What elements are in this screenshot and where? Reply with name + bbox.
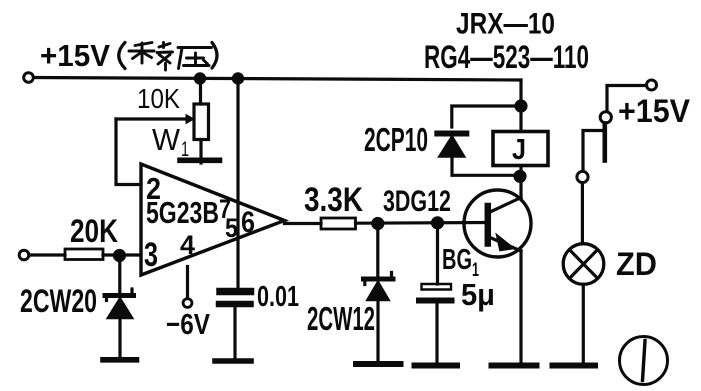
svg-text:ZD: ZD <box>616 246 657 282</box>
svg-text:−6V: −6V <box>166 309 211 341</box>
svg-text:+15V: +15V <box>40 38 110 73</box>
wire rail down through op-amp to 0.01 <box>236 80 239 288</box>
ground under emitter <box>492 363 537 369</box>
op-amp U1 5G23B triangle <box>141 164 285 275</box>
node junction 2CW12 <box>373 219 383 229</box>
resistor 20K body <box>65 249 103 260</box>
wire rail corner down to relay <box>519 80 522 132</box>
svg-text:10K: 10K <box>137 83 180 114</box>
svg-text:3: 3 <box>144 236 158 274</box>
potentiometer W1 10K body <box>194 104 209 140</box>
wire junction to 5u cap <box>436 223 439 284</box>
svg-text:RG4—523—110: RG4—523—110 <box>424 39 589 75</box>
wire switch to lamp <box>581 183 584 244</box>
svg-text:5μ: 5μ <box>461 277 495 312</box>
transistor BG1 3DG12 <box>464 190 531 257</box>
svg-text:1: 1 <box>181 138 189 161</box>
wire +15V to switch <box>607 86 647 112</box>
figure number 1 circle <box>620 337 668 385</box>
label +15V (regulated) top left <box>40 38 217 73</box>
hanzi ya (pressure) <box>178 48 212 69</box>
wire 5u to ground <box>435 304 438 363</box>
wire pot bottom to ground <box>199 140 202 164</box>
node junction pin3-2CW20 <box>115 251 125 261</box>
lamp ZD <box>563 244 604 285</box>
wire emitter down to ground <box>519 251 522 362</box>
wire 2CW20 to ground <box>118 319 121 358</box>
wire relay bottom to junction <box>519 166 522 177</box>
zener diode 2CW12 <box>364 273 394 301</box>
diode 2CP10 <box>437 134 466 158</box>
zener diode 2CW20 <box>105 289 134 319</box>
wire 3.3K to transistor base <box>356 221 487 225</box>
ground under 0.01 <box>215 358 251 364</box>
wire top to 2CP10 <box>452 106 521 127</box>
switch blade <box>602 124 607 161</box>
svg-text:3.3K: 3.3K <box>304 181 363 219</box>
ground under potentiometer <box>180 158 220 164</box>
ground under lamp <box>553 363 596 369</box>
wire op-amp output to 3.3K <box>285 222 322 225</box>
label W1 <box>152 122 189 161</box>
svg-text:5: 5 <box>225 213 238 243</box>
wire input to 20K <box>29 253 65 256</box>
wire junction to zener 2CW20 <box>118 256 121 293</box>
label BG1 <box>442 244 479 281</box>
wire wiper to op-amp pin2 <box>116 119 141 185</box>
relay J coil box <box>493 132 548 166</box>
svg-text:BG: BG <box>442 244 472 276</box>
wire op-amp pin4 <box>186 267 189 299</box>
wire lamp to ground <box>582 284 585 362</box>
wire +15V rail <box>34 78 521 81</box>
svg-text:2CP10: 2CP10 <box>364 121 428 158</box>
hanzi wen (stable) <box>129 43 173 71</box>
svg-text:3DG12: 3DG12 <box>383 185 451 218</box>
svg-text:5G23B: 5G23B <box>146 195 219 230</box>
node junction diode-collector <box>515 171 525 181</box>
svg-text:2CW12: 2CW12 <box>307 300 375 337</box>
svg-text:20K: 20K <box>70 213 118 249</box>
node junction relay-diode top <box>516 101 526 111</box>
capacitor C 5u <box>419 284 452 301</box>
wire 2CW12 to ground <box>376 301 379 362</box>
svg-text:JRX—10: JRX—10 <box>456 8 555 41</box>
svg-text:6: 6 <box>241 206 255 239</box>
ground under 2CW12 <box>356 361 401 367</box>
terminal +15V left <box>24 73 34 83</box>
node junction 5u <box>433 218 443 228</box>
switch contact upper <box>600 112 611 123</box>
wire 2CP10 bottom <box>452 157 519 175</box>
wire junction to 2CW12 <box>376 224 379 277</box>
svg-text:W: W <box>152 122 181 157</box>
wire 0.01 to ground <box>233 308 236 359</box>
node -6V open circle <box>183 299 192 308</box>
terminal +15V right <box>647 80 657 90</box>
wire pot top <box>199 79 202 104</box>
ground under 2CW20 <box>103 357 137 363</box>
wire collector up <box>519 177 522 198</box>
capacitor C 0.01 <box>219 292 251 305</box>
resistor 3.3K body <box>321 218 356 229</box>
terminal input left <box>19 250 29 260</box>
potentiometer W1 wiper arrow <box>116 115 194 124</box>
svg-text:0.01: 0.01 <box>257 281 299 313</box>
switch contact lower <box>577 171 588 182</box>
node junction rail-pot <box>195 74 204 83</box>
svg-text:2CW20: 2CW20 <box>20 283 97 319</box>
ground under 5u <box>415 363 458 369</box>
wire 20K to op-amp pin3 <box>103 253 141 256</box>
switch fixed contact wire <box>583 131 601 171</box>
node junction rail-0.01 <box>233 74 242 83</box>
svg-text:+15V: +15V <box>618 93 691 129</box>
svg-text:J: J <box>512 134 526 166</box>
svg-text:4: 4 <box>180 230 195 260</box>
